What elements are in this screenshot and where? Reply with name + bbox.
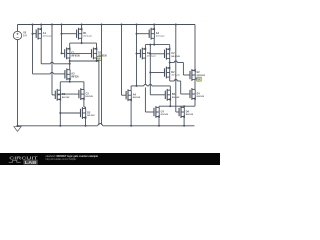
node bus D (x=101)	[101, 24, 103, 125]
wire B3 source to rail	[59, 99, 61, 126]
wire B2 drain up	[144, 45, 146, 49]
wire B3 drain up	[59, 82, 61, 90]
wire D2 source to E4 gate	[170, 80, 190, 95]
wire NMOS mid rail right	[131, 84, 170, 86]
svg-text:IRF9530: IRF9530	[71, 55, 80, 57]
transistor D1	[92, 47, 98, 59]
CircuitLab logo	[9, 155, 38, 164]
wire A1 gate stub	[33, 33, 37, 35]
wire D2 gate	[150, 72, 164, 74]
node bus B (x=51.5)	[51, 24, 53, 95]
wire D1 source down	[96, 58, 98, 62]
label E4	[197, 92, 205, 98]
svg-text:IRF9530: IRF9530	[83, 36, 92, 38]
wire B1 gate stub	[62, 33, 77, 35]
label A3	[71, 73, 79, 79]
wire D1 gate	[66, 52, 91, 54]
label A2	[156, 32, 165, 38]
label B3	[62, 93, 70, 99]
wire output node Y1 rail	[70, 60, 99, 62]
wire C3 drain up	[83, 82, 85, 90]
wire D3 source to rail	[85, 118, 87, 127]
wire A1 source down	[40, 38, 42, 64]
wire bus G to B4 gate	[150, 94, 165, 96]
probe Y2	[195, 77, 201, 81]
wire C2-D2 node to E2 gate	[170, 61, 190, 75]
label A4	[133, 94, 141, 100]
transistor A4	[126, 89, 132, 101]
svg-text:IRF9530: IRF9530	[156, 36, 165, 38]
svg-text:IRF530: IRF530	[62, 97, 70, 99]
label C2	[171, 52, 180, 58]
svg-text:IRF530: IRF530	[172, 97, 180, 99]
wire V3 bottom to ground rail	[17, 40, 19, 127]
svg-text:LAB: LAB	[25, 160, 37, 165]
node bus A (x=32)	[32, 24, 34, 74]
wire A1 drain to rail	[40, 24, 42, 30]
transistor C4	[154, 106, 160, 118]
wire V3 top to rail	[17, 25, 19, 32]
wire bus E to A4 gate	[122, 94, 127, 96]
transistor B2	[140, 48, 146, 60]
wire E2 source to E4 drain	[194, 80, 196, 90]
svg-text:IRF530: IRF530	[133, 97, 141, 99]
wire C2 source to D2 drain	[169, 58, 171, 68]
node bus G (x=149.8)	[149, 44, 151, 95]
node bus H (x=175.3)	[175, 24, 177, 113]
wire C1 drain up	[69, 43, 71, 49]
wire bus A to A3 gate	[33, 72, 65, 74]
transistor A1	[36, 28, 42, 40]
voltage source V3	[13, 31, 27, 39]
transistor B1	[77, 28, 83, 40]
transistor E2	[190, 69, 196, 81]
wire bus H to D4 gate	[176, 111, 179, 113]
transistor D3	[81, 107, 87, 119]
wire A2-B2 drain bus	[145, 44, 169, 46]
wire A2 drain to rail	[153, 24, 155, 30]
svg-text:IRF530: IRF530	[197, 96, 205, 98]
wire E4 source down	[194, 99, 196, 107]
wire C1 gate stub	[62, 52, 65, 54]
svg-text:IRF530: IRF530	[86, 96, 94, 98]
svg-text:IRF9530: IRF9530	[197, 75, 206, 77]
wire C2 gate	[150, 53, 164, 55]
svg-text:IRF530: IRF530	[186, 114, 194, 116]
wire A2 gate stub	[137, 33, 150, 35]
wire C1-D1 drain bus	[70, 42, 97, 44]
wire C3 gate	[57, 93, 79, 95]
svg-text:IRF530: IRF530	[71, 76, 79, 78]
wire A3 source down	[69, 79, 71, 82]
transistor A2	[149, 28, 155, 40]
label B1	[83, 32, 92, 38]
wire B2 source to C4 gate	[145, 58, 154, 112]
label B4	[172, 93, 180, 99]
wire B4 source down	[169, 99, 171, 107]
wire B4 drain up	[169, 86, 171, 90]
wire B1 drain to rail	[81, 24, 83, 30]
transistor B4	[165, 89, 171, 101]
svg-text:IRF530: IRF530	[161, 114, 169, 116]
wire C4 source to rail	[158, 117, 160, 127]
label C3	[86, 92, 94, 98]
transistor D4	[179, 106, 185, 118]
svg-text:IRF9530: IRF9530	[43, 36, 52, 38]
label E2	[197, 71, 206, 77]
wire NMOS mid rail left	[60, 81, 84, 83]
label B2	[147, 52, 156, 58]
wire bottom ground rail	[18, 124, 195, 126]
wire lower link rail	[159, 105, 195, 107]
transistor E4	[190, 88, 196, 100]
wire A2 source down	[153, 38, 155, 45]
node bus C (x=61)	[61, 24, 63, 55]
wire D4 source to rail	[183, 117, 185, 127]
svg-text:IRF530: IRF530	[87, 115, 95, 117]
wire D4 drain up	[183, 106, 185, 107]
wire B2 gate stub	[137, 53, 141, 55]
probe Y1	[97, 56, 101, 61]
label D3	[87, 111, 95, 117]
svg-text:http://circuitlab.com/c/7dq5kv: http://circuitlab.com/c/7dq5kv	[46, 158, 78, 161]
transistor C1	[65, 47, 71, 59]
footer bar	[0, 153, 220, 165]
node bus E (x=121)	[121, 24, 123, 96]
svg-text:5 V: 5 V	[23, 34, 27, 37]
label D1	[98, 52, 107, 58]
node bus F (x=136)	[136, 24, 138, 87]
transistor B3	[55, 89, 61, 101]
label C4	[161, 110, 169, 116]
wire C2 drain up	[169, 45, 171, 50]
wire A1 source to A3 drain	[41, 62, 69, 63]
wire bus B to B3 gate	[52, 94, 55, 96]
transistor D2	[165, 67, 171, 79]
wire B1 source down	[81, 38, 83, 44]
svg-text:IRF9530: IRF9530	[147, 56, 156, 58]
transistor A3	[65, 68, 71, 80]
wire C3 source to D3 drain	[84, 99, 86, 109]
transistor C2	[165, 48, 171, 60]
label C1	[71, 52, 80, 58]
wire D1 drain up	[96, 43, 98, 49]
label D4	[186, 110, 194, 116]
ground	[14, 126, 21, 132]
wire C4 drain up	[158, 106, 160, 107]
wire VDD top rail	[18, 24, 196, 26]
wire D3 gate	[60, 112, 80, 114]
footer text	[46, 155, 99, 161]
wire A4 drain up	[130, 86, 132, 91]
wire rail corner to E2 drain	[194, 25, 196, 71]
transistor C3	[79, 88, 85, 100]
label A1	[43, 32, 52, 38]
wire C1 source / A3 drain	[69, 58, 71, 70]
wire D2 source down	[169, 77, 171, 81]
wire A4 source to rail	[130, 100, 132, 127]
label D2	[171, 71, 180, 77]
wire output down left	[98, 61, 100, 125]
